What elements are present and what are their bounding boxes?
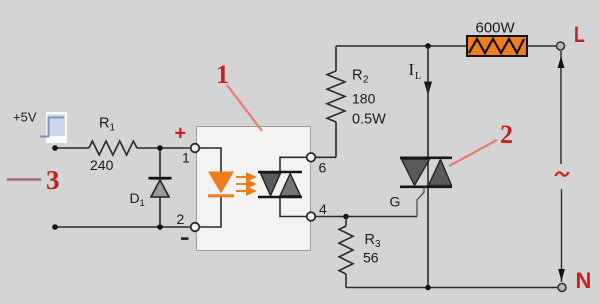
svg-text:180: 180 [352,91,376,107]
label D1 [130,190,145,209]
label R3 [365,232,382,250]
optocoupler U1 body [197,127,311,251]
opto-triac (photo triac) [258,172,302,197]
svg-text:+5V: +5V [13,110,37,125]
junction dot supply top [52,145,58,151]
junction dot D1 top [157,145,163,151]
svg-text:2: 2 [177,211,185,227]
svg-text:L: L [415,71,421,82]
svg-text:4: 4 [319,201,327,217]
svg-text:240: 240 [90,157,114,173]
junction dot top rail [425,43,431,49]
pin 6 [307,153,316,162]
wire triac MT2 vertical [427,46,429,288]
svg-text:G: G [390,194,401,210]
svg-text:2: 2 [363,75,369,86]
callout 2 [449,120,513,166]
svg-text:R: R [99,116,109,132]
junction dot bottom rail [425,285,431,291]
svg-text:+: + [175,123,187,145]
svg-text:R: R [352,68,362,84]
label IL [409,60,422,82]
wire AC bottom rail [346,287,558,289]
diode D1 [149,177,172,197]
junction dot supply bottom [52,224,58,230]
svg-text:1: 1 [140,198,145,209]
callout 3 [7,165,60,195]
svg-text:3: 3 [46,165,60,195]
svg-text:56: 56 [363,250,379,266]
wire diode branch vertical [159,148,161,227]
wire opto-triac MT1 to pin 4 [280,197,417,217]
wire bottom-left (pin 2 return) [55,226,196,228]
wire LED anode [195,148,221,172]
svg-text:0.5W: 0.5W [352,112,386,128]
label ~ (AC) [556,172,569,176]
svg-text:I: I [409,60,415,79]
wire top-left (supply to R1 to pin 1) [55,147,89,149]
label R2 [352,68,369,86]
svg-text:R: R [365,232,375,248]
svg-text:L: L [574,23,585,47]
pin 2 [191,223,200,232]
svg-text:6: 6 [319,160,327,176]
resistor R1 [89,141,137,155]
resistor R3 [339,217,353,288]
junction dot gate/R3 [343,214,349,220]
load resistor 600W [467,36,527,56]
svg-text:3: 3 [375,239,381,250]
svg-text:1: 1 [182,150,190,166]
callout 1 [216,60,262,131]
pulse source icon (+5V step waveform) [40,112,67,143]
svg-text:2: 2 [500,120,513,149]
wire LED cathode [195,197,221,227]
pin 4 [307,212,316,221]
junction dot D1 bottom [157,224,163,230]
LED (opto emitter) [208,172,234,198]
label R1 [99,116,116,134]
wire AC top rail [336,45,467,47]
light arrows [236,174,255,195]
triac Q1 (main) [400,158,452,187]
svg-text:1: 1 [110,123,116,134]
svg-text:N: N [576,268,592,293]
wire AC source vertical [558,51,565,282]
label - (minus) [181,237,189,240]
svg-text:D: D [130,190,140,206]
wire R1 to pin 1 [137,147,196,149]
resistor R2 [327,46,345,122]
pin 1 [191,144,200,153]
svg-text:600W: 600W [476,20,516,37]
terminal L [557,42,565,50]
wire gate [417,187,424,217]
wire load to L terminal [527,45,557,47]
current arrow IL [424,82,432,96]
terminal N [558,284,566,292]
wire opto-triac MT2 to pin 6 [280,157,336,172]
wire pin6 riser to R2 [335,122,337,157]
svg-text:1: 1 [216,60,229,89]
